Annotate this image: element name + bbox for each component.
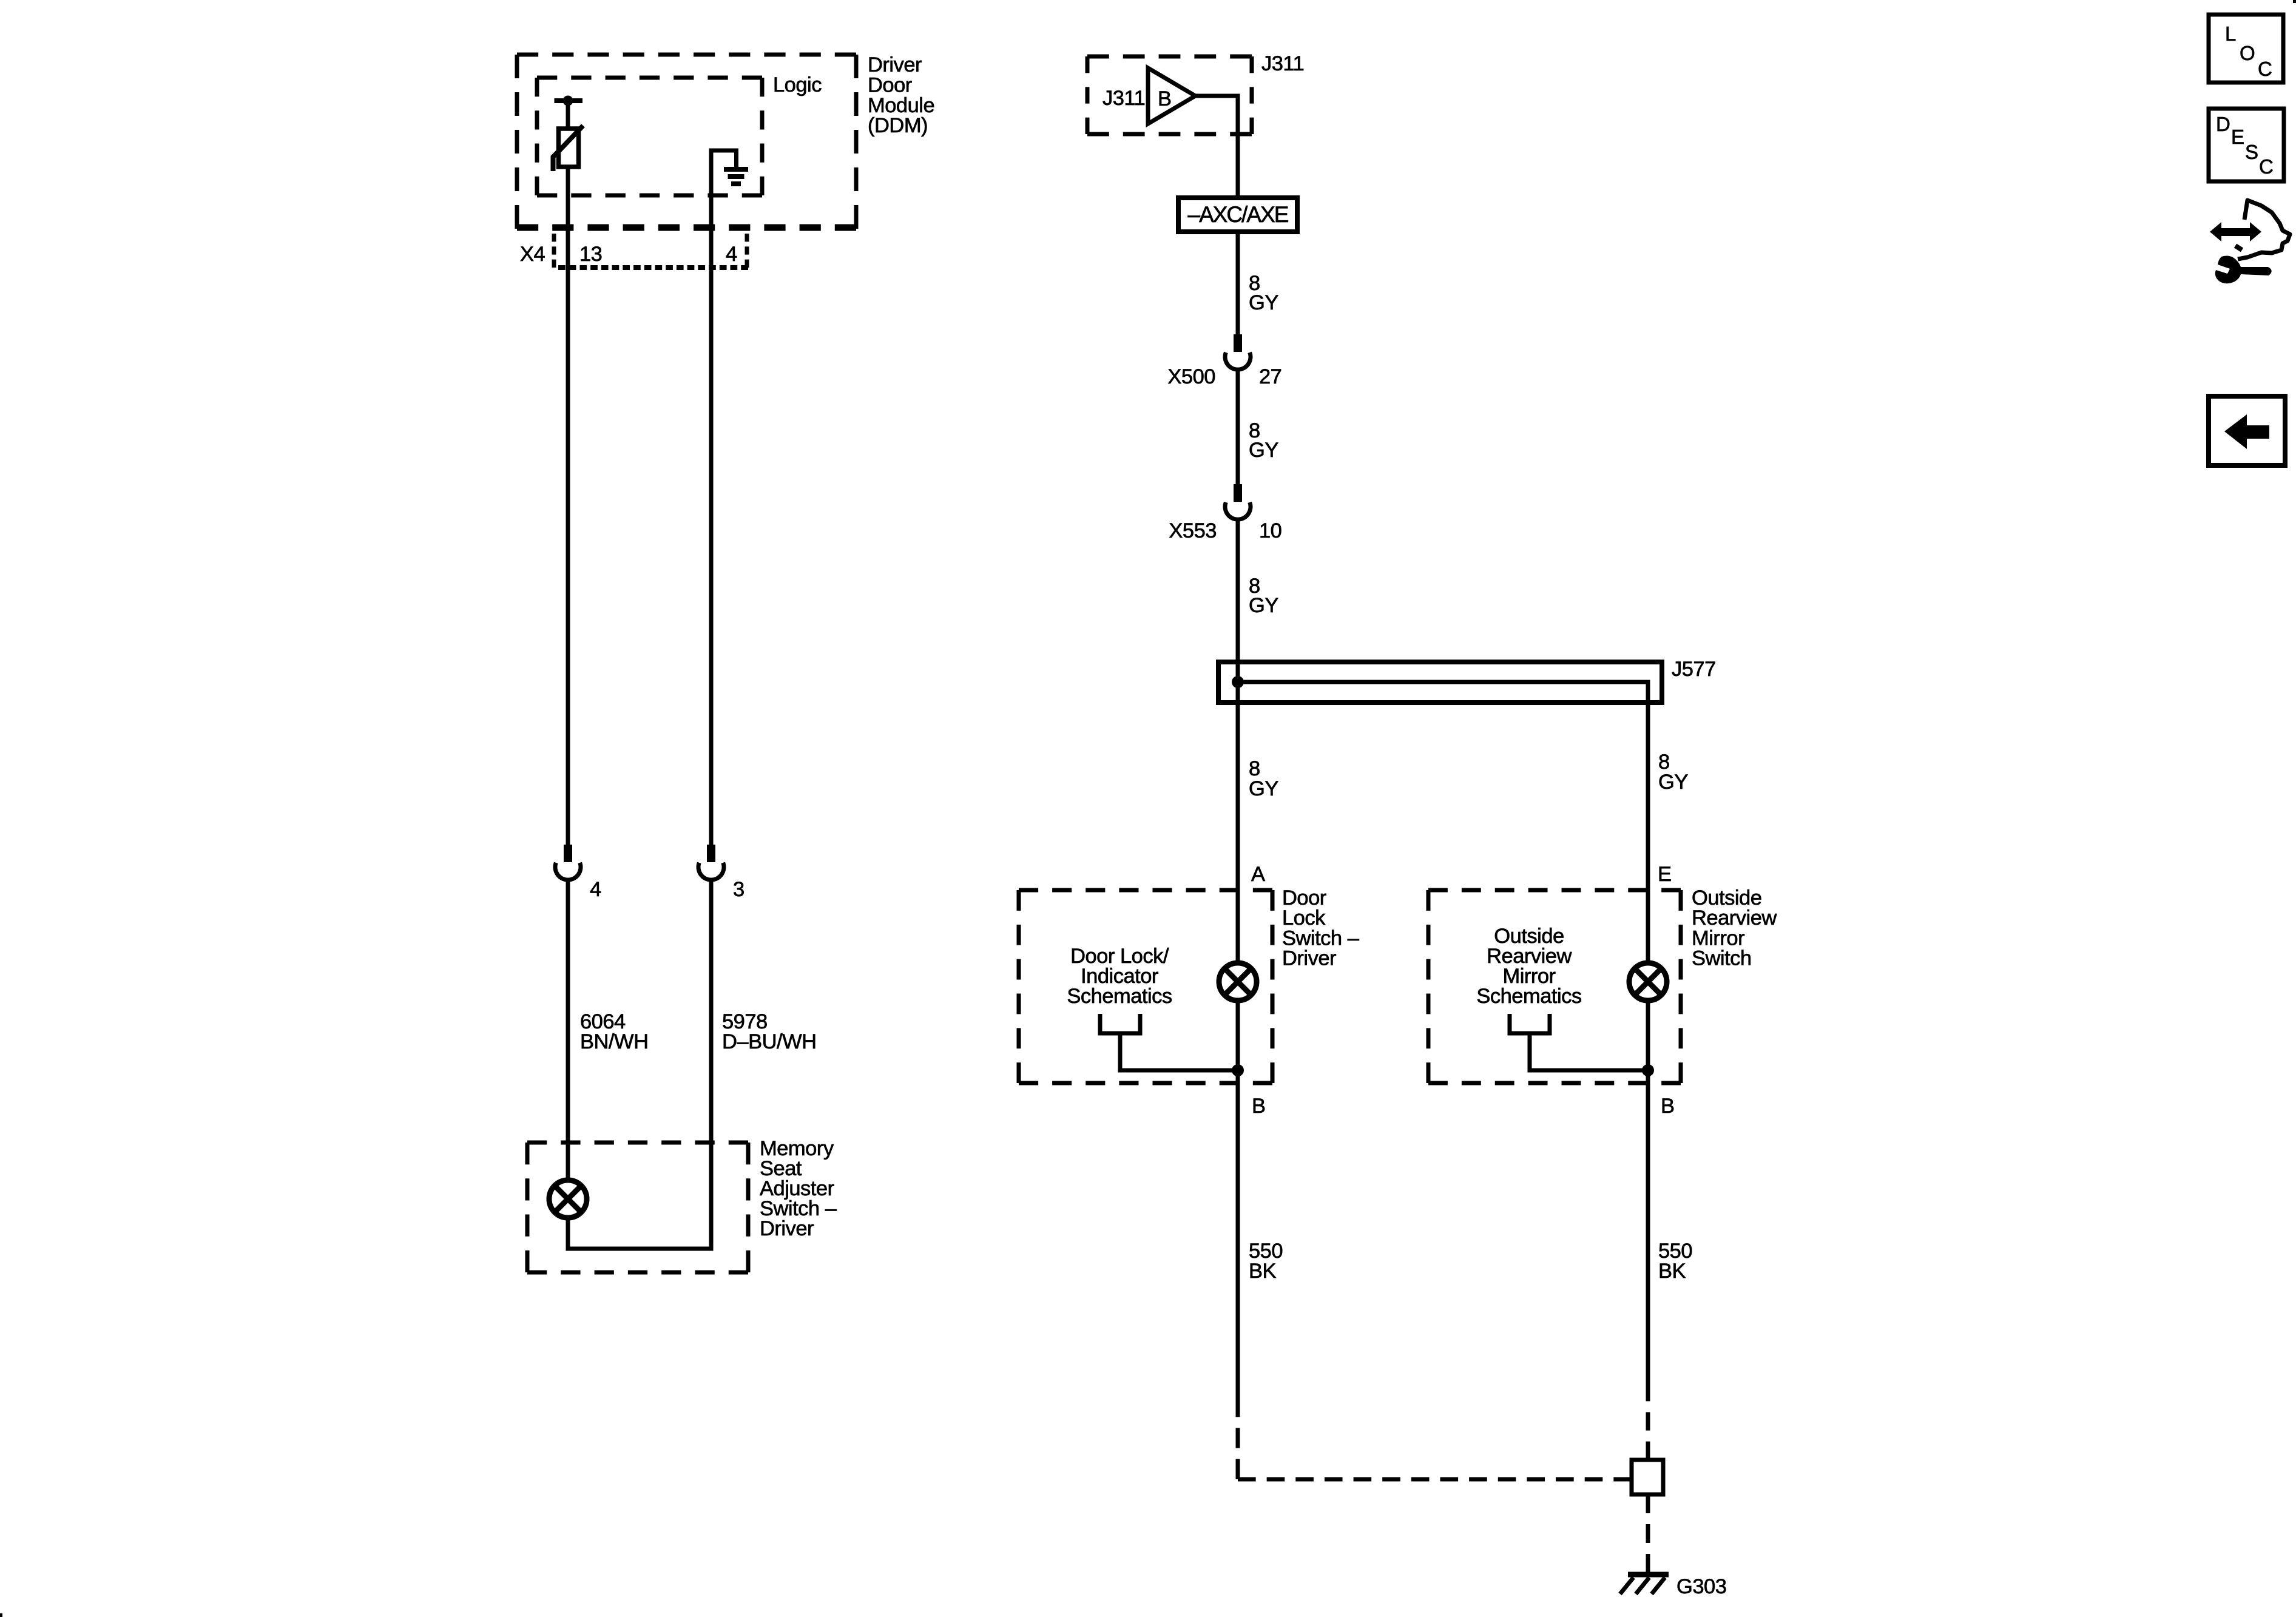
svg-text:B: B <box>1661 1095 1675 1118</box>
svg-text:GY: GY <box>1249 777 1278 800</box>
svg-text:(DDM): (DDM) <box>868 114 928 137</box>
svg-text:10: 10 <box>1259 519 1281 542</box>
svg-text:S: S <box>2245 141 2258 163</box>
svg-text:Driver: Driver <box>868 53 922 76</box>
svg-text:Schematics: Schematics <box>1067 985 1172 1008</box>
svg-text:G303: G303 <box>1676 1575 1726 1598</box>
svg-text:GY: GY <box>1249 439 1278 462</box>
svg-text:3: 3 <box>733 878 745 901</box>
svg-text:Door: Door <box>868 73 912 96</box>
svg-text:A: A <box>1251 863 1265 886</box>
svg-text:BK: BK <box>1249 1260 1277 1283</box>
svg-text:Driver: Driver <box>1282 947 1336 970</box>
svg-text:D: D <box>2216 113 2230 135</box>
svg-text:Schematics: Schematics <box>1476 985 1581 1008</box>
svg-text:4: 4 <box>590 878 601 901</box>
svg-text:X500: X500 <box>1167 365 1215 388</box>
svg-text:C: C <box>2259 155 2273 178</box>
svg-text:Switch: Switch <box>1692 947 1752 970</box>
svg-text:E: E <box>2231 126 2244 148</box>
svg-text:C: C <box>2258 58 2272 80</box>
svg-text:13: 13 <box>579 243 602 266</box>
svg-text:Driver: Driver <box>760 1217 814 1240</box>
svg-text:J311: J311 <box>1102 87 1145 110</box>
svg-text:O: O <box>2240 42 2255 64</box>
svg-text:B: B <box>1252 1095 1266 1118</box>
svg-text:L: L <box>2225 22 2236 45</box>
svg-text:GY: GY <box>1249 291 1278 314</box>
svg-text:B: B <box>1158 87 1172 110</box>
svg-text:E: E <box>1658 863 1672 886</box>
svg-text:4: 4 <box>726 243 737 266</box>
svg-text:GY: GY <box>1658 771 1688 794</box>
svg-text:BN/WH: BN/WH <box>580 1030 649 1053</box>
svg-text:BK: BK <box>1658 1260 1686 1283</box>
svg-text:J577: J577 <box>1672 658 1716 681</box>
svg-text:Logic: Logic <box>773 73 822 96</box>
svg-text:D–BU/WH: D–BU/WH <box>722 1030 817 1053</box>
svg-text:Module: Module <box>868 94 934 117</box>
svg-text:–AXC/AXE: –AXC/AXE <box>1188 202 1289 227</box>
svg-text:X4: X4 <box>520 243 545 266</box>
svg-text:J311: J311 <box>1261 52 1304 75</box>
svg-text:GY: GY <box>1249 594 1278 617</box>
svg-text:27: 27 <box>1259 365 1281 388</box>
svg-text:X553: X553 <box>1169 519 1217 542</box>
